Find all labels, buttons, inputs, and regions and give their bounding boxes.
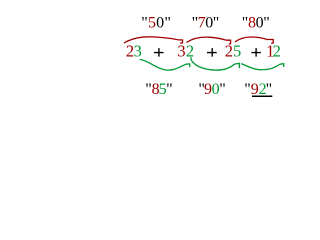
svg-text:3: 3 (134, 41, 142, 60)
svg-text:": " (266, 81, 273, 98)
svg-text:": " (141, 15, 148, 32)
svg-text:3: 3 (177, 41, 185, 60)
svg-text:": " (219, 81, 226, 98)
svg-text:": " (166, 81, 173, 98)
svg-text:5: 5 (148, 15, 156, 32)
svg-text:0: 0 (156, 15, 164, 32)
svg-text:5: 5 (233, 41, 241, 60)
svg-text:": " (213, 15, 220, 32)
svg-text:": " (164, 15, 171, 32)
svg-text:9: 9 (251, 81, 259, 98)
svg-text:": " (263, 15, 270, 32)
svg-text:2: 2 (186, 41, 194, 60)
svg-text:2: 2 (273, 41, 281, 60)
